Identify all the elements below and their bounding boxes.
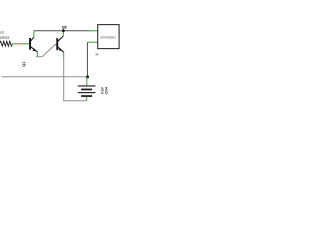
wire base of Q1 xyxy=(13,43,30,45)
svg-text:SPEAKER: SPEAKER xyxy=(100,35,116,39)
wire battery positive stub xyxy=(86,78,88,86)
svg-text:Q1: Q1 xyxy=(22,62,26,67)
transistor Q1 xyxy=(29,37,37,52)
speaker ref label smudge xyxy=(96,53,99,55)
wire Q1 collector stub xyxy=(33,31,35,38)
svg-text:Q2: Q2 xyxy=(62,26,67,30)
power rail wire top xyxy=(34,30,89,32)
ground rail wire xyxy=(2,76,88,78)
wire Q2 emitter long vertical xyxy=(63,57,65,101)
resistor R2 xyxy=(0,41,13,46)
wire Q2 emitter stub xyxy=(63,52,65,57)
wire battery negative stub xyxy=(86,97,88,101)
svg-text:CO4: CO4 xyxy=(105,87,109,94)
svg-text:200Ω: 200Ω xyxy=(0,35,9,40)
wire bottom horizontal xyxy=(64,100,87,102)
wire speaker down vertical xyxy=(86,42,88,77)
speaker box xyxy=(98,25,119,49)
junction dot battery top xyxy=(86,76,89,79)
wire horizontal under Q1 xyxy=(36,56,42,58)
wire Q2 base stub xyxy=(55,44,57,46)
wire Q2 collector stub xyxy=(62,31,64,36)
wire Q1 emitter stub xyxy=(36,52,38,57)
wire speaker pin 1 xyxy=(89,30,98,32)
wire speaker pin 2 xyxy=(87,41,97,43)
battery BT1 xyxy=(78,85,96,96)
node dot Q2 collector junction xyxy=(62,29,65,32)
wire diagonal to Q2 base xyxy=(42,45,55,57)
transistor Q2 xyxy=(56,36,63,52)
